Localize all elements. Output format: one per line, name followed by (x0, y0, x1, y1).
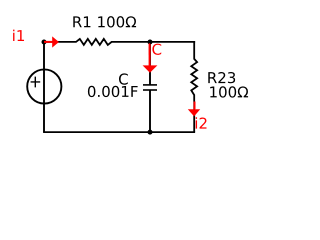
resistor R23 name label (208, 72, 235, 83)
current label iC (149, 43, 161, 55)
node dot C top (148, 40, 153, 45)
capacitor C bottom lead (149, 90, 151, 132)
resistor R1 label 'R1 100&#937;' (73, 16, 136, 27)
capacitor C top lead (149, 42, 151, 85)
voltage source plus sign (31, 77, 41, 88)
wire left branch through source (43, 42, 45, 132)
resistor R23 value label (210, 86, 248, 97)
current label i1 (13, 30, 24, 41)
resistor R23 (vertical zigzag) and right branch wire (191, 41, 197, 132)
capacitor C value label '0.001F' (88, 86, 138, 97)
current arrow i1 (points right) (44, 41, 52, 43)
wire bottom (43, 131, 195, 133)
capacitor C top plate (143, 84, 157, 86)
capacitor C name label (119, 73, 128, 84)
node dot bottom (148, 130, 153, 135)
current arrow iC (points down) (149, 44, 151, 66)
current label i2 (196, 117, 207, 128)
node dot top-left (42, 40, 47, 45)
resistor R1 (horizontal zigzag) and top wire (44, 39, 195, 45)
voltage source V1 circle (27, 69, 61, 103)
current arrow i2 (points down) (194, 102, 196, 110)
capacitor C bottom plate (143, 89, 157, 91)
